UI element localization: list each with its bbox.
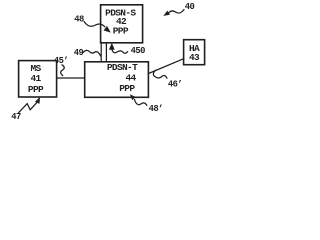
svg-text:40: 40 [185,2,195,12]
block PDSN-T 44 [85,62,149,98]
svg-text:47: 47 [11,112,21,120]
block HA 43 [184,40,205,65]
svg-text:45’: 45’ [54,56,68,66]
label 48 leader arrow to PPP of PDSN-S [74,15,111,33]
wire PDSN-T to HA diagonal [149,59,185,74]
figure number 40 leader arrow [163,2,194,16]
svg-text:46’: 46’ [168,80,182,90]
wire MS to PDSN-T [57,77,85,79]
label 48' leader arrow to PPP of PDSN-T [130,94,163,114]
svg-text:41: 41 [30,73,41,84]
label 45' leader to MS wire [54,56,68,76]
svg-text:44: 44 [125,72,136,83]
arrow 450 pointing up to PDSN-S [109,43,145,56]
label 47 leader arrow to MS box [11,97,40,122]
svg-text:49: 49 [74,48,84,58]
svg-text:43: 43 [189,52,200,63]
wire PDSN-S to PDSN-T right line [105,43,107,62]
block PDSN-S 42 [101,5,143,43]
svg-text:450: 450 [131,46,146,56]
label 46' leader to diagonal [153,70,182,89]
svg-text:PPP: PPP [28,84,44,95]
svg-text:48’: 48’ [149,104,163,114]
svg-text:PPP: PPP [119,83,135,94]
wire PDSN-S to PDSN-T left line [100,43,102,62]
block MS 41 [19,61,57,97]
label 49 leader to left wire [74,48,101,58]
svg-text:48: 48 [74,15,84,25]
svg-text:PPP: PPP [113,26,129,37]
